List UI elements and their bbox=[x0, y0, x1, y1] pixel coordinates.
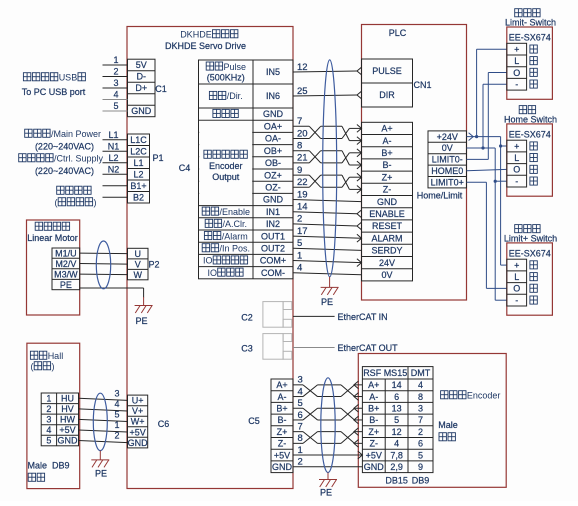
svg-text:P2: P2 bbox=[148, 260, 159, 270]
svg-text:OA-: OA- bbox=[265, 134, 281, 144]
label row digital gnd (CJK)数字地 / GND bbox=[213, 109, 284, 119]
svg-text:GND: GND bbox=[131, 106, 152, 116]
svg-text:SERDY: SERDY bbox=[371, 246, 402, 256]
label Linear Motor bbox=[27, 233, 78, 243]
svg-text:25: 25 bbox=[297, 86, 308, 97]
label pin OB+ bbox=[264, 146, 282, 156]
wire USB pin 3 to C1 bbox=[103, 78, 128, 88]
svg-text:OZ+: OZ+ bbox=[264, 170, 282, 180]
svg-text:+5V: +5V bbox=[366, 450, 382, 460]
svg-text:N2: N2 bbox=[108, 164, 120, 174]
ground PE (bottom cable) bbox=[319, 473, 337, 487]
cable shield C4-PLC (ellipse) bbox=[323, 60, 337, 277]
svg-text:W+: W+ bbox=[131, 417, 145, 427]
svg-text:M1/U: M1/U bbox=[55, 248, 77, 258]
svg-text:1: 1 bbox=[113, 55, 118, 65]
label PLC bbox=[389, 28, 407, 38]
connector C5 cells A+..GND bbox=[271, 379, 293, 473]
svg-text:9: 9 bbox=[418, 462, 423, 472]
svg-text:GND: GND bbox=[272, 462, 293, 472]
svg-text:0V: 0V bbox=[442, 143, 453, 153]
switch S1 Limit- (EE-SX674) 负限位 bbox=[505, 9, 556, 100]
svg-text:Home Switch: Home Switch bbox=[504, 114, 557, 124]
svg-text:+: + bbox=[514, 44, 519, 54]
svg-text:2: 2 bbox=[298, 457, 303, 468]
svg-text:14: 14 bbox=[392, 380, 402, 390]
svg-text:PLC: PLC bbox=[389, 28, 407, 38]
svg-text:IO: IO bbox=[208, 268, 218, 278]
label C6 bbox=[158, 419, 170, 429]
svg-text:EtherCAT OUT: EtherCAT OUT bbox=[338, 343, 399, 353]
svg-text:/In Pos.: /In Pos. bbox=[220, 244, 251, 254]
wire power L2 to P1 bbox=[103, 153, 128, 163]
svg-text:GND: GND bbox=[377, 197, 398, 207]
label P2 bbox=[148, 260, 159, 270]
svg-text:O: O bbox=[513, 165, 520, 175]
svg-text:8: 8 bbox=[297, 141, 302, 152]
label row COM+ bbox=[203, 256, 286, 266]
svg-text:GND: GND bbox=[58, 436, 79, 446]
svg-text:L: L bbox=[514, 272, 519, 282]
svg-text:2,9: 2,9 bbox=[390, 462, 403, 472]
svg-text:7,8: 7,8 bbox=[390, 450, 403, 460]
box J1 hall sensor (optional) bbox=[27, 343, 80, 488]
svg-text:1: 1 bbox=[46, 394, 51, 404]
svg-text:9: 9 bbox=[297, 165, 302, 176]
connector C6 cells U+ V+ W+ +5V GND bbox=[128, 395, 149, 448]
label ctrl supply (CJK)控制电源/Ctrl. Supply bbox=[19, 154, 104, 164]
svg-text:-: - bbox=[515, 295, 518, 305]
svg-text:(220~240VAC): (220~240VAC) bbox=[35, 142, 94, 152]
svg-text:Male DB9: Male DB9 bbox=[28, 461, 70, 471]
label pin OZ- bbox=[265, 183, 281, 193]
wire hall signal 3 bbox=[79, 389, 128, 401]
svg-text:C4: C4 bbox=[179, 163, 191, 173]
svg-text:Limit- Switch: Limit- Switch bbox=[505, 18, 556, 28]
svg-text:DMT: DMT bbox=[411, 368, 431, 378]
svg-text:-: - bbox=[515, 79, 518, 89]
svg-text:1: 1 bbox=[297, 250, 302, 261]
svg-text:V+: V+ bbox=[132, 406, 143, 416]
label encoder (CJK)编码器Encoder bbox=[441, 391, 501, 401]
svg-text:Z-: Z- bbox=[278, 439, 287, 449]
wire USB pin 2 to C1 bbox=[103, 67, 128, 77]
svg-text:PULSE: PULSE bbox=[372, 66, 402, 76]
label (220~240VAC) 1 bbox=[35, 142, 94, 152]
svg-text:A+: A+ bbox=[276, 380, 287, 390]
label C3 bbox=[241, 344, 253, 354]
svg-text:PE: PE bbox=[95, 469, 107, 479]
label To PC USB port bbox=[22, 87, 86, 97]
svg-text:1: 1 bbox=[114, 420, 119, 430]
svg-text:): ) bbox=[94, 198, 97, 208]
label To PC USB port (CJK)连接电脑USB口 bbox=[23, 73, 85, 83]
switch S3 Limit+ (EE-SX674) 正限位 bbox=[504, 225, 557, 316]
svg-text:Z-: Z- bbox=[370, 439, 379, 449]
svg-text:B+: B+ bbox=[368, 403, 379, 413]
svg-text:/Main Power: /Main Power bbox=[51, 129, 101, 139]
svg-text:5: 5 bbox=[113, 101, 118, 111]
net LIMIT0- to Limit- switch O bbox=[467, 73, 507, 160]
label C5 bbox=[248, 416, 260, 426]
svg-text:3: 3 bbox=[46, 415, 51, 425]
svg-text:L1: L1 bbox=[133, 158, 143, 168]
label motor (CJK)直线电机 bbox=[35, 222, 69, 230]
svg-text:4: 4 bbox=[113, 90, 118, 100]
svg-text:+5V: +5V bbox=[59, 425, 75, 435]
svg-text:5: 5 bbox=[418, 450, 423, 460]
svg-text:0V: 0V bbox=[381, 270, 392, 280]
svg-text:4: 4 bbox=[46, 425, 51, 435]
svg-text:4: 4 bbox=[418, 380, 423, 390]
svg-text:+5V: +5V bbox=[274, 450, 290, 460]
svg-text:B+: B+ bbox=[381, 148, 392, 158]
svg-text:12: 12 bbox=[297, 62, 308, 73]
wire motor PE to ground bbox=[80, 288, 144, 298]
wire twisted pair OA+/OA- (pins 7/20) to PLC A+/A- bbox=[293, 116, 362, 144]
table C4 drive IO grid bbox=[199, 60, 294, 279]
svg-text:/Dir.: /Dir. bbox=[227, 91, 243, 101]
svg-text:5: 5 bbox=[394, 415, 399, 425]
wire +5V to encoder (wire 1) bbox=[293, 445, 362, 459]
svg-text:HOME0: HOME0 bbox=[431, 166, 463, 176]
svg-text:RSF MS15: RSF MS15 bbox=[363, 368, 407, 378]
wire motor phase V bbox=[80, 263, 128, 266]
box J2 encoder bbox=[358, 354, 506, 488]
svg-text:2: 2 bbox=[297, 214, 302, 225]
wire COM- to PLC 0V (pin 4) bbox=[293, 263, 362, 275]
net 0V to switch - pins bbox=[467, 84, 507, 300]
svg-text:Male: Male bbox=[438, 420, 458, 430]
svg-text:PE: PE bbox=[320, 487, 332, 497]
connector CN1 signal cells A+..0V bbox=[362, 122, 413, 281]
label U1 title DKHDE(CJK)驱动器 bbox=[180, 30, 238, 40]
label (CJK)公头 (encoder) bbox=[439, 433, 455, 441]
svg-text:21: 21 bbox=[297, 153, 308, 164]
svg-text:Encoder: Encoder bbox=[209, 161, 243, 171]
label PE (hall ground) bbox=[95, 469, 107, 479]
box U2 PLC bbox=[362, 25, 467, 301]
svg-text:L1: L1 bbox=[108, 130, 118, 140]
label pin OZ+ bbox=[264, 170, 282, 180]
svg-text:B-: B- bbox=[278, 415, 287, 425]
connector C1 (USB) cells 5V D- D+ GND bbox=[128, 59, 156, 116]
wire OUT2 to PLC SERDY (pin 5) bbox=[293, 238, 362, 250]
ground PE (top cable) bbox=[321, 277, 339, 295]
svg-text:Home/Limit: Home/Limit bbox=[417, 191, 463, 201]
svg-text:3: 3 bbox=[418, 403, 423, 413]
label EtherCAT OUT bbox=[338, 343, 399, 353]
label row OUT2 bbox=[202, 244, 285, 254]
svg-text:2: 2 bbox=[114, 431, 119, 441]
svg-text:Pulse: Pulse bbox=[224, 62, 247, 72]
cable shield hall (ellipse) bbox=[93, 393, 107, 450]
svg-text:DB9: DB9 bbox=[412, 475, 430, 485]
svg-text:OA+: OA+ bbox=[264, 122, 282, 132]
svg-text:Z+: Z+ bbox=[368, 427, 379, 437]
wire twisted pair Z+/Z- (wires 7/8) to encoder bbox=[293, 421, 362, 447]
wire twisted pair OB+/OB- (pins 8/21) to PLC B+/B- bbox=[293, 141, 362, 169]
svg-text:A-: A- bbox=[369, 392, 378, 402]
svg-text:A+: A+ bbox=[381, 124, 392, 134]
wire twisted pair B+/B- (wires 5/6) to encoder bbox=[293, 398, 362, 424]
svg-text:(: ( bbox=[31, 362, 34, 372]
svg-text:ENABLE: ENABLE bbox=[369, 209, 405, 219]
svg-text:B-: B- bbox=[369, 415, 378, 425]
ground PE (hall cable) bbox=[91, 451, 109, 468]
label P1 bbox=[152, 153, 163, 163]
net +24V to switch + pins bbox=[467, 49, 507, 265]
svg-text:DKHDE Servo Drive: DKHDE Servo Drive bbox=[165, 41, 246, 51]
svg-text:IN5: IN5 bbox=[266, 67, 280, 77]
label C2 bbox=[241, 313, 253, 323]
svg-text:A-: A- bbox=[278, 392, 287, 402]
wire hall signal 2 bbox=[79, 431, 128, 443]
svg-text:Z+: Z+ bbox=[277, 427, 288, 437]
label encoder output (CJK)编码器输出 Encoder Output bbox=[204, 150, 247, 182]
label main power (CJK)主电源/Main Power bbox=[25, 129, 101, 139]
svg-text:GND: GND bbox=[128, 438, 149, 448]
svg-text:DKHDE: DKHDE bbox=[180, 30, 212, 40]
label Home/Limit bbox=[417, 191, 463, 201]
svg-text:14: 14 bbox=[297, 202, 308, 213]
svg-text:(220~240VAC): (220~240VAC) bbox=[35, 166, 94, 176]
svg-text:+: + bbox=[514, 260, 519, 270]
svg-text:IN2: IN2 bbox=[266, 219, 280, 229]
svg-text:1: 1 bbox=[298, 445, 303, 456]
svg-text:Linear Motor: Linear Motor bbox=[27, 233, 78, 243]
connector P1 (power) cells L1C L2C L1 L2 B1+ B2 bbox=[128, 134, 150, 203]
label Male (encoder) bbox=[438, 420, 458, 430]
svg-text:OB-: OB- bbox=[265, 158, 281, 168]
svg-text:3: 3 bbox=[298, 375, 303, 386]
svg-text:2: 2 bbox=[418, 427, 423, 437]
table encoder pin mapping bbox=[362, 367, 433, 473]
label row IN1 bbox=[202, 207, 280, 217]
svg-text:COM-: COM- bbox=[261, 268, 285, 278]
label row IN2 bbox=[205, 219, 280, 229]
svg-text:Z-: Z- bbox=[383, 185, 392, 195]
wire OUT1 to PLC ALARM (pin 17) bbox=[293, 226, 362, 242]
wire IN2 to PLC RESET (pin 2) bbox=[293, 214, 362, 230]
label row pulse (CJK)脉冲Pulse (500KHz) / IN5 bbox=[206, 62, 280, 83]
svg-text:C5: C5 bbox=[248, 416, 260, 426]
svg-text:L2: L2 bbox=[108, 153, 118, 163]
svg-text:USB: USB bbox=[59, 73, 78, 83]
svg-text:PE: PE bbox=[321, 297, 333, 307]
svg-text:CN1: CN1 bbox=[413, 80, 431, 90]
wire hall signal 4 bbox=[79, 399, 128, 411]
svg-text:EE-SX674: EE-SX674 bbox=[509, 130, 551, 140]
svg-text:/A.Clr.: /A.Clr. bbox=[223, 219, 248, 229]
svg-text:2: 2 bbox=[46, 404, 51, 414]
connector C3 EtherCAT OUT bbox=[263, 334, 335, 360]
net HOME0 to Home switch O bbox=[467, 169, 507, 170]
label PE (top cable) bbox=[321, 297, 333, 307]
cable shield motor (ellipse) bbox=[96, 241, 110, 289]
box M1 linear motor bbox=[27, 220, 80, 315]
svg-text:5V: 5V bbox=[136, 60, 147, 70]
svg-text:+24V: +24V bbox=[437, 132, 458, 142]
label Male DB9 (hall) bbox=[28, 461, 70, 471]
svg-text:5: 5 bbox=[114, 410, 119, 420]
wire power brake to P1 bbox=[103, 196, 128, 198]
label DB15 DB9 bbox=[385, 475, 429, 485]
svg-text:IO: IO bbox=[203, 256, 213, 266]
label PE (bottom cable) bbox=[320, 487, 332, 497]
svg-text:D-: D- bbox=[137, 72, 147, 82]
svg-text:U+: U+ bbox=[132, 396, 144, 406]
wire motor phase U bbox=[80, 252, 128, 254]
svg-text:EE-SX674: EE-SX674 bbox=[509, 249, 551, 259]
svg-text:19: 19 bbox=[297, 189, 308, 200]
svg-text:/Ctrl. Supply: /Ctrl. Supply bbox=[54, 154, 104, 164]
svg-text:5: 5 bbox=[297, 238, 302, 249]
box U1 DKHDE servo drive bbox=[127, 27, 293, 489]
svg-text:B2: B2 bbox=[133, 192, 144, 202]
svg-text:OUT2: OUT2 bbox=[261, 244, 285, 254]
svg-text:IN1: IN1 bbox=[266, 207, 280, 217]
switch S2 Home (EE-SX674) 原点 bbox=[504, 106, 557, 197]
svg-text:RESET: RESET bbox=[372, 221, 403, 231]
svg-text:L1C: L1C bbox=[130, 135, 147, 145]
label U1 title DKHDE Servo Drive bbox=[165, 41, 246, 51]
svg-text:20: 20 bbox=[297, 128, 308, 139]
wire COM+ to PLC 24V (pin 1) bbox=[293, 250, 362, 266]
svg-text:Output: Output bbox=[212, 172, 240, 182]
wire IN6 to PLC DIR (pin 25) bbox=[293, 86, 362, 99]
label row OUT1 bbox=[204, 231, 285, 241]
svg-text:Limit+ Switch: Limit+ Switch bbox=[504, 233, 557, 243]
svg-text:GND: GND bbox=[364, 462, 385, 472]
svg-text:V: V bbox=[135, 259, 141, 269]
svg-text:5: 5 bbox=[298, 398, 303, 409]
svg-text:(500KHz): (500KHz) bbox=[207, 72, 245, 82]
svg-text:4: 4 bbox=[297, 263, 302, 274]
label PE (motor ground) bbox=[135, 316, 147, 326]
svg-text:OZ-: OZ- bbox=[265, 183, 281, 193]
svg-text:C6: C6 bbox=[158, 419, 170, 429]
label C4 bbox=[179, 163, 191, 173]
svg-text:7: 7 bbox=[418, 415, 423, 425]
net LIMIT0+ to Limit+ switch O bbox=[467, 182, 507, 288]
wire motor phase W bbox=[80, 273, 128, 276]
label row dir (CJK)方向/Dir. / IN6 bbox=[209, 91, 280, 101]
svg-text:PE: PE bbox=[60, 280, 72, 290]
svg-text:EE-SX674: EE-SX674 bbox=[509, 33, 551, 43]
svg-text:To PC USB port: To PC USB port bbox=[22, 87, 86, 97]
svg-text:8: 8 bbox=[298, 433, 303, 444]
svg-text:4: 4 bbox=[298, 386, 303, 397]
svg-text:LIMIT0+: LIMIT0+ bbox=[431, 177, 464, 187]
svg-text:5: 5 bbox=[46, 436, 51, 446]
svg-text:L: L bbox=[514, 153, 519, 163]
svg-text:-: - bbox=[515, 176, 518, 186]
svg-text:2: 2 bbox=[113, 67, 118, 77]
svg-text:Encoder: Encoder bbox=[467, 391, 501, 401]
svg-text:A-: A- bbox=[383, 136, 392, 146]
label pin GND bbox=[263, 195, 284, 205]
svg-text:C3: C3 bbox=[241, 344, 253, 354]
label brake resistor note (CJK)(根据需要) bbox=[55, 198, 97, 208]
svg-text:7: 7 bbox=[297, 116, 302, 127]
label pin OA- bbox=[265, 134, 281, 144]
ground PE (motor) bbox=[135, 297, 153, 313]
wire power N1 to P1 bbox=[103, 141, 128, 151]
svg-text:COM+: COM+ bbox=[260, 256, 286, 266]
svg-text:P1: P1 bbox=[152, 153, 163, 163]
svg-text:GND: GND bbox=[263, 195, 284, 205]
label pin OB- bbox=[265, 158, 281, 168]
svg-text:PE: PE bbox=[135, 316, 147, 326]
label brake resistor (CJK)制动电阻 bbox=[57, 186, 91, 194]
label (CJK)公头 (hall) bbox=[28, 473, 44, 481]
svg-text:17: 17 bbox=[297, 226, 308, 237]
svg-text:B1+: B1+ bbox=[130, 181, 146, 191]
svg-text:/Enable: /Enable bbox=[220, 207, 251, 217]
svg-text:D+: D+ bbox=[135, 83, 147, 93]
svg-text:DIR: DIR bbox=[379, 90, 395, 100]
wire IN5 to PLC PULSE (pin 12) bbox=[293, 62, 362, 75]
svg-text:EtherCAT IN: EtherCAT IN bbox=[338, 312, 388, 322]
svg-text:C2: C2 bbox=[241, 313, 253, 323]
svg-text:U: U bbox=[135, 249, 142, 259]
connector hall pins 1-5 HU HV HW +5V GND bbox=[41, 393, 78, 446]
svg-text:24V: 24V bbox=[379, 258, 395, 268]
connector CN1 cells PULSE DIR bbox=[362, 59, 413, 107]
wire GND2 to PLC GND (pin 19) bbox=[293, 189, 362, 201]
label CN1 bbox=[413, 80, 431, 90]
svg-text:13: 13 bbox=[392, 403, 402, 413]
svg-text:6: 6 bbox=[394, 392, 399, 402]
svg-text:HU: HU bbox=[61, 394, 74, 404]
svg-text:O: O bbox=[513, 68, 520, 78]
svg-text:22: 22 bbox=[297, 177, 308, 188]
svg-text:Hall: Hall bbox=[48, 351, 64, 361]
label hall (CJK)霍尔Hall bbox=[30, 351, 63, 361]
wire GND to encoder (wire 2) bbox=[293, 457, 362, 468]
cable shield C5-encoder (ellipse) bbox=[321, 378, 335, 473]
wire IN1 to PLC ENABLE (pin 14) bbox=[293, 202, 362, 218]
label (220~240VAC) 2 bbox=[35, 166, 94, 176]
connector P2 cells U V W bbox=[128, 248, 149, 279]
svg-text:N1: N1 bbox=[108, 141, 120, 151]
svg-text:8: 8 bbox=[418, 392, 423, 402]
wire USB pin 1 to C1 bbox=[103, 55, 128, 65]
svg-text:M2/V: M2/V bbox=[55, 259, 76, 269]
label hall optional (CJK)(选配) bbox=[31, 362, 55, 372]
svg-text:6: 6 bbox=[418, 439, 423, 449]
svg-text:B-: B- bbox=[383, 160, 392, 170]
svg-text:L2C: L2C bbox=[130, 146, 147, 156]
wire hall signal 1 bbox=[79, 420, 128, 432]
wire power L1 to P1 bbox=[103, 130, 128, 140]
svg-text:6: 6 bbox=[298, 410, 303, 421]
label row COM- bbox=[208, 268, 286, 278]
svg-text:+: + bbox=[514, 141, 519, 151]
svg-text:7: 7 bbox=[298, 421, 303, 432]
svg-text:OUT1: OUT1 bbox=[261, 231, 285, 241]
svg-text:C1: C1 bbox=[155, 84, 167, 94]
wire power N2 to P1 bbox=[103, 164, 128, 174]
wire hall signal 5 bbox=[79, 410, 128, 422]
svg-text:DB15: DB15 bbox=[385, 475, 408, 485]
wire power brake to P1 bbox=[103, 185, 128, 187]
connector Home/Limit cells +24V 0V LIMIT0- HOME0 LIMIT0+ bbox=[428, 131, 467, 188]
svg-text:12: 12 bbox=[392, 427, 402, 437]
wire twisted pair A+/A- (wires 3/4) to encoder bbox=[293, 375, 362, 401]
svg-text:3: 3 bbox=[113, 78, 118, 88]
